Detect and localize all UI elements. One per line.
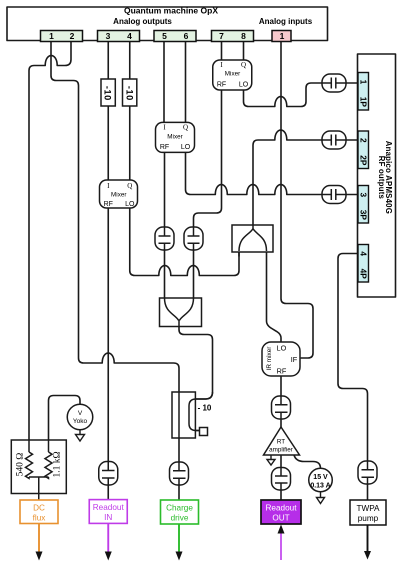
svg-text:Yoko: Yoko [73,418,88,425]
DC flux arrow [38,524,40,553]
wire mixer U2 RF to readout DC block [107,208,109,462]
svg-text:Analog inputs: Analog inputs [259,17,313,26]
coupler termination [200,428,208,436]
wire port4 to attenuator2 [129,42,131,80]
svg-text:1: 1 [49,31,54,41]
svg-text:0.13 A: 0.13 A [310,483,330,490]
wire coupler through to charge DC block [178,485,180,500]
port 3/3P box [358,186,369,224]
svg-text:LO: LO [277,344,287,353]
svg-text:RF: RF [104,201,113,208]
wire TWPA DC block to TWPA pump [367,484,369,500]
wire port3 to attenuator1 [107,42,109,80]
svg-text:Q: Q [241,61,246,69]
wire port6 to mixer U1 Q [185,42,187,123]
svg-text:2P: 2P [359,155,369,166]
svg-text:LO: LO [239,81,249,88]
resistor network box [11,440,66,500]
Readout IN box [89,500,127,524]
DC block C4 charge [170,462,189,485]
wire analog input 1 to IR mixer IF [281,42,313,359]
TWPA arrow [367,525,369,552]
svg-text:RF outputs: RF outputs [377,156,386,200]
svg-text:Q: Q [183,124,188,132]
svg-text:LO: LO [125,201,135,208]
Anapico chassis box [358,54,396,297]
ground under 15V supply [317,492,325,504]
wire splitter right output to IR mixer LO [267,252,282,342]
wire port 4P to TWPA DC block [338,254,368,462]
Readout OUT box [261,500,301,524]
wire port2 to 540ohm resistor [29,42,71,453]
wire RT amplifier to DC block C6 [280,455,282,468]
wire DC block C5 to RT amplifier [280,419,282,427]
svg-text:Analog outputs: Analog outputs [113,17,172,26]
svg-text:Mixer: Mixer [167,134,182,141]
Charge drive arrow [178,524,180,552]
wire attenuator2 to mixer U2 Q [129,106,131,180]
TWPA pump box [350,500,386,525]
wire port1 to coupler through-line [51,42,179,463]
svg-text:Mixer: Mixer [111,191,126,198]
resistor junction wire [29,477,49,500]
wire DC block C2 to combiner right input [193,250,195,298]
wire DC block C1 to combiner left input [164,250,166,298]
port 4/4P box [358,245,369,283]
svg-text:6: 6 [184,31,189,41]
wire mixer U3 LO to DC block B1 (port 1P) [244,83,323,107]
svg-text:1: 1 [280,31,285,41]
DC flux box [20,500,58,524]
Charge drive box [161,500,199,524]
svg-text:RF: RF [160,144,169,151]
resistor R2 1.1kohm [45,452,52,478]
wire port 2P to DC block B2 [346,139,358,141]
svg-text:3: 3 [359,192,369,197]
port 2/2P box [358,131,369,169]
DC block C5 [272,396,291,419]
svg-text:Quantum machine OpX: Quantum machine OpX [124,6,218,16]
attenuator -10 (port4) [123,79,137,106]
mixer U2 (ports3-4) [100,180,138,208]
svg-text:15 V: 15 V [313,474,328,481]
wire RT amplifier to 15V supply [294,455,321,469]
DC block C6 [272,468,291,491]
wire port5 to mixer U1 I [163,42,165,123]
svg-text:amplifier: amplifier [269,447,293,454]
port 1/1P box [358,73,369,111]
Readout OUT arrow (up) [280,533,282,560]
mixer U1 (ports5-6) [156,122,195,152]
svg-text:drive: drive [171,514,189,523]
svg-text:RT: RT [277,439,285,446]
splitter (wilkinson) [232,225,273,252]
port box 7-8 [212,31,254,42]
svg-text:LO: LO [181,144,191,151]
wire splitter left output down [238,252,240,256]
svg-text:1.1 kΩ: 1.1 kΩ [53,451,63,477]
DC block B2 horizontal [322,131,346,149]
wire DC block B2 to splitter input [253,130,322,225]
svg-text:7: 7 [219,31,224,41]
svg-text:4: 4 [359,251,369,256]
wire port7 to mixer U3 I [221,42,223,61]
OpX chassis box [7,7,328,41]
svg-text:flux: flux [33,514,46,523]
attenuators [101,79,137,106]
wire into box port2 [29,440,49,452]
svg-text:IF: IF [291,355,298,364]
svg-text:4: 4 [127,31,132,41]
combiner (wilkinson) [160,298,202,327]
wire IR mixer RF to DC block C5 [280,376,282,396]
svg-text:RF: RF [277,367,287,376]
ground at RT amplifier [267,455,275,465]
svg-text:3P: 3P [359,210,369,221]
svg-text:V: V [78,410,83,417]
mixer U3 (ports7-8) [213,60,252,90]
directional coupler [172,392,213,438]
svg-text:1P: 1P [359,97,369,108]
svg-text:IR mixer: IR mixer [266,346,273,371]
ports group [41,31,292,42]
DC block C7 twpa [358,461,377,484]
svg-text:2: 2 [70,31,75,41]
wire mixer U1 RF to DC block C1 [164,152,166,227]
resistor R1 540ohm [26,452,33,478]
svg-text:TWPA: TWPA [356,504,380,513]
wire port8 to mixer U3 Q [243,42,245,61]
port box 5-6 [154,31,196,42]
15V supply [309,468,333,492]
port box 3-4 [98,31,140,42]
svg-text:5: 5 [162,31,167,41]
svg-text:- 10: - 10 [198,404,212,413]
svg-text:RF: RF [217,81,226,88]
wire attenuator1 to mixer U2 I [107,106,109,180]
DC block C2 [184,227,203,250]
anapico ports [358,73,369,283]
DC block B3 horizontal [322,186,346,204]
ground under Yoko [76,430,85,441]
svg-text:1: 1 [359,80,369,85]
svg-text:DC: DC [33,504,45,513]
voltage source V Yoko [67,404,93,430]
svg-text:2: 2 [359,138,369,143]
wire combiner output to coupler coupled port [179,327,213,431]
svg-text:3: 3 [106,31,111,41]
svg-text:-10: -10 [124,86,134,101]
DC block B1 horizontal [322,74,346,92]
svg-text:Charge: Charge [166,504,193,513]
svg-text:Readout: Readout [266,504,298,513]
wire Yoko to 1.1k resistor [49,396,81,453]
svg-text:OUT: OUT [272,514,289,523]
analog input port box 1 [272,31,291,42]
wire readout DC block to Readout IN [107,485,109,500]
wire mixer U1 LO to DC block B3 (port 3P) [186,152,323,194]
port box 1-2 [41,31,83,42]
wire mixer U3 RF to DC block C2 [194,90,222,227]
svg-text:Mixer: Mixer [225,71,240,78]
DC block C1 [155,227,174,250]
RT amplifier [264,427,300,455]
IR mixer U4 [262,342,300,376]
attenuator -10 (port3) [101,79,115,106]
svg-text:8: 8 [241,31,246,41]
wire DC block B1 to port 1P [346,82,358,84]
svg-text:4P: 4P [359,269,369,280]
svg-text:-10: -10 [103,86,113,101]
svg-text:IN: IN [104,513,112,522]
wire DC block B3 to port 3P [346,194,358,196]
DC block C3 readout in [99,462,118,486]
wire DC block C6 to Readout OUT [280,490,282,500]
wire mixer U2 LO to splitter left output [130,208,239,276]
DC blocks vertical [99,74,377,490]
svg-text:540 Ω: 540 Ω [16,453,26,477]
svg-text:Q: Q [127,182,132,190]
svg-text:pump: pump [358,514,379,523]
svg-text:Readout: Readout [93,503,125,512]
Readout IN arrow [107,524,109,553]
